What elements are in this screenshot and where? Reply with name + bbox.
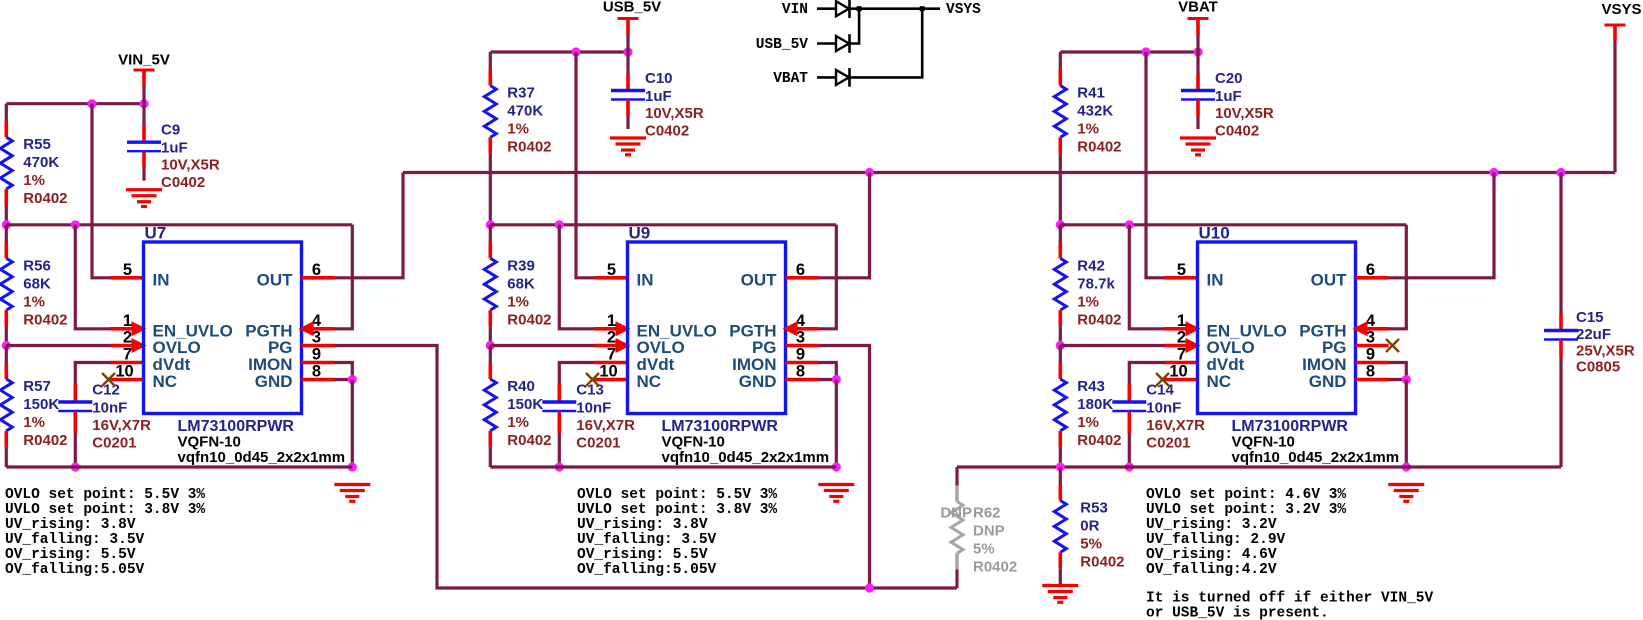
svg-text:5%: 5% <box>973 541 995 558</box>
wire D3 out <box>850 9 923 78</box>
svg-text:VQFN-10: VQFN-10 <box>1232 434 1295 451</box>
svg-text:470K: 470K <box>507 103 543 120</box>
wire R40 to rail <box>489 447 492 467</box>
wire R42 to node <box>1059 326 1062 345</box>
svg-text:1%: 1% <box>507 121 529 138</box>
pin number 2 U7 <box>123 329 132 347</box>
wire R57 to rail <box>5 447 8 467</box>
svg-text:NC: NC <box>637 372 662 391</box>
svg-text:1%: 1% <box>1077 121 1099 138</box>
ground under C9 <box>126 190 162 207</box>
svg-text:IN: IN <box>637 270 654 289</box>
svg-text:R42: R42 <box>1077 257 1105 274</box>
svg-text:GND: GND <box>1309 372 1347 391</box>
svg-text:432K: 432K <box>1077 103 1113 120</box>
node U7 EN riser junction <box>71 220 80 229</box>
label U7 footprint <box>178 449 346 466</box>
wire U9 IN feed <box>576 52 595 278</box>
node U10 GND junction <box>1402 375 1411 384</box>
node C13 on gnd rail <box>555 462 564 471</box>
label U9 refdes <box>629 224 651 243</box>
pin number 7 U9 <box>607 346 616 364</box>
pin number 9 U7 <box>312 346 321 364</box>
wire VSYS bus <box>403 171 1615 174</box>
diode D3 (VBAT) <box>836 68 850 87</box>
ground U10 <box>1388 485 1424 502</box>
wire U10 IN feed <box>1146 52 1165 278</box>
pin 2 U10 OVLO stub <box>1165 338 1201 353</box>
wire U7 gnd rail <box>6 465 352 468</box>
pin 5 U10 IN stub <box>1165 276 1198 280</box>
svg-text:OV_rising: 5.5V: OV_rising: 5.5V <box>577 547 708 563</box>
svg-text:C0805: C0805 <box>1576 359 1620 376</box>
svg-text:C10: C10 <box>645 70 673 87</box>
svg-text:10: 10 <box>1169 363 1187 381</box>
wire U7 UVLO rail <box>6 223 352 226</box>
wire U9 IMON tie <box>819 363 837 380</box>
wire U9 PG riser <box>819 346 870 589</box>
pin names U7 <box>153 270 294 391</box>
node D3 join <box>920 6 925 11</box>
op-amp U9 body <box>628 242 786 414</box>
svg-text:1%: 1% <box>23 414 45 431</box>
wire U7 PG net <box>335 346 958 589</box>
svg-text:VQFN-10: VQFN-10 <box>662 434 725 451</box>
svg-text:UVLO set point: 3.8V 3%: UVLO set point: 3.8V 3% <box>5 502 205 518</box>
pin number 3 U9 <box>796 329 805 347</box>
pin 6 U7 OUT stub <box>302 276 335 280</box>
wire USB_5V to rail <box>626 35 629 53</box>
svg-text:VQFN-10: VQFN-10 <box>178 434 241 451</box>
wire R62 bottom lead <box>955 570 958 589</box>
svg-text:R56: R56 <box>23 257 51 274</box>
label U7 refdes <box>145 224 167 243</box>
svg-text:1%: 1% <box>1077 414 1099 431</box>
wire VIN to diode D1 <box>817 7 836 10</box>
label U10 package <box>1232 434 1295 451</box>
node C15 on bus <box>1556 168 1565 177</box>
pin number 8 U10 <box>1366 363 1375 381</box>
svg-text:GND: GND <box>739 372 777 391</box>
node U10 EN riser junction <box>1125 220 1134 229</box>
svg-text:VSYS: VSYS <box>946 2 981 18</box>
pin 5 U9 IN stub <box>595 276 628 280</box>
wire U10 OVLO feed <box>1060 344 1164 347</box>
node U7 GND junction <box>348 375 357 384</box>
svg-text:R43: R43 <box>1077 378 1105 395</box>
svg-text:UV_rising: 3.2V: UV_rising: 3.2V <box>1146 517 1277 533</box>
power flag USB_5V <box>603 0 661 35</box>
svg-text:R0402: R0402 <box>1080 554 1124 571</box>
power flag VSYS <box>1601 1 1641 41</box>
note U7 OVLO/UVLO set points <box>5 487 205 578</box>
svg-text:2: 2 <box>607 329 616 347</box>
svg-text:5: 5 <box>123 261 132 279</box>
node U10 gnd rail junction <box>1402 462 1411 471</box>
svg-text:NC: NC <box>1207 372 1232 391</box>
svg-text:OVLO set point: 5.5V 3%: OVLO set point: 5.5V 3% <box>577 487 777 503</box>
resistor R55 <box>0 104 67 208</box>
svg-text:5%: 5% <box>1080 536 1102 553</box>
wire U10 PGTH feed <box>1389 225 1407 329</box>
svg-text:U7: U7 <box>145 224 167 243</box>
svg-text:R0402: R0402 <box>23 432 67 449</box>
svg-text:OVLO set point: 4.6V 3%: OVLO set point: 4.6V 3% <box>1146 487 1346 503</box>
capacitor C10 <box>611 52 704 140</box>
pin number 6 U9 <box>796 261 805 279</box>
svg-text:1: 1 <box>123 312 132 330</box>
pin 1 U7 EN_UVLO stub <box>111 321 147 336</box>
svg-text:150K: 150K <box>507 396 543 413</box>
svg-text:1: 1 <box>1177 312 1186 330</box>
pin 2 U9 OVLO stub <box>595 338 631 353</box>
svg-text:R0402: R0402 <box>23 190 67 207</box>
svg-text:1: 1 <box>607 312 616 330</box>
node U9 IN-feed junction <box>571 47 580 56</box>
label U9 footprint <box>662 449 830 466</box>
svg-text:UV_falling: 2.9V: UV_falling: 2.9V <box>1146 532 1286 548</box>
pin 7 U7 dVdt stub <box>111 361 144 365</box>
svg-text:C0402: C0402 <box>1215 123 1259 140</box>
svg-text:R0402: R0402 <box>1077 432 1121 449</box>
resistor R43 <box>1054 346 1121 450</box>
pin 2 U7 OVLO stub <box>111 338 147 353</box>
pin number 8 U9 <box>796 363 805 381</box>
svg-text:16V,X7R: 16V,X7R <box>1146 417 1205 434</box>
wire U7 IN feed <box>92 104 111 278</box>
svg-text:10nF: 10nF <box>1146 400 1181 417</box>
svg-text:R0402: R0402 <box>1077 139 1121 156</box>
note U9 OVLO/UVLO set points <box>577 487 777 578</box>
wire U9 dVdt feed <box>559 363 594 385</box>
pin 6 U10 OUT stub <box>1356 276 1389 280</box>
node U10 IN-feed junction <box>1141 47 1150 56</box>
label net VBAT <box>773 71 808 87</box>
svg-text:VIN_5V: VIN_5V <box>118 52 170 69</box>
node U10 UVLO tap <box>1056 220 1065 229</box>
pin 10 U10 NC stub <box>1156 373 1198 386</box>
node U9 OVLO tap <box>486 341 495 350</box>
pin names U10 <box>1207 270 1348 391</box>
wire U9 gnd riser <box>835 380 838 468</box>
resistor R53 <box>1054 467 1124 571</box>
pin names U9 <box>637 270 778 391</box>
diode D1 (VIN) <box>836 0 850 18</box>
wire D1 out to VSYS <box>850 7 941 10</box>
svg-text:180K: 180K <box>1077 396 1113 413</box>
ground under R53 <box>1042 586 1078 603</box>
svg-text:R0402: R0402 <box>23 311 67 328</box>
wire VSYS flag to bus <box>1613 41 1616 173</box>
ground under C10 <box>610 138 646 155</box>
pin number 3 U10 <box>1366 329 1375 347</box>
wire U10 gnd rail <box>1060 465 1561 468</box>
capacitor C9 <box>127 104 220 192</box>
label net VSYS (diode out) <box>946 2 981 18</box>
svg-text:vqfn10_0d45_2x2x1mm: vqfn10_0d45_2x2x1mm <box>178 449 346 466</box>
svg-text:7: 7 <box>1177 346 1186 364</box>
wire R41 to node <box>1059 153 1062 225</box>
resistor R56 <box>0 225 67 328</box>
node D1/D2 join <box>857 6 862 11</box>
pin 4 U9 PGTH stub <box>783 321 819 336</box>
node U7 UVLO tap <box>2 220 11 229</box>
svg-text:2: 2 <box>123 329 132 347</box>
svg-text:USB_5V: USB_5V <box>603 0 661 16</box>
pin number 2 U10 <box>1177 329 1186 347</box>
node U9 gnd rail junction <box>832 462 841 471</box>
wire R39 to node <box>489 326 492 345</box>
resistor R42 <box>1054 225 1121 328</box>
svg-text:C13: C13 <box>576 382 604 399</box>
node U9 EN riser junction <box>555 220 564 229</box>
svg-text:IN: IN <box>1207 270 1224 289</box>
svg-text:R0402: R0402 <box>507 432 551 449</box>
op-amp U7 body <box>144 242 302 414</box>
label net USB_5V <box>756 37 809 53</box>
svg-text:10nF: 10nF <box>576 400 611 417</box>
ground U7 <box>334 485 370 502</box>
svg-text:10V,X5R: 10V,X5R <box>161 157 220 174</box>
svg-text:5: 5 <box>1177 261 1186 279</box>
pin number 4 U10 <box>1366 312 1376 330</box>
pin number 7 U7 <box>123 346 132 364</box>
svg-text:USB_5V: USB_5V <box>756 37 809 53</box>
pin 4 U7 PGTH stub <box>299 321 335 336</box>
pin number 9 U10 <box>1366 346 1375 364</box>
svg-text:5: 5 <box>607 261 616 279</box>
pin 3 U9 PG stub <box>786 344 819 348</box>
pin 9 U10 IMON stub <box>1356 361 1389 365</box>
capacitor C13 <box>542 382 635 468</box>
svg-text:C12: C12 <box>92 382 120 399</box>
wire R43 to rail <box>1059 447 1062 467</box>
node U7 OVLO tap <box>2 341 11 350</box>
svg-text:68K: 68K <box>507 275 535 292</box>
svg-text:LM73100RPWR: LM73100RPWR <box>1232 418 1349 435</box>
wire U7 dVdt feed <box>75 363 110 385</box>
pin 1 U10 EN_UVLO stub <box>1165 321 1201 336</box>
no-connect U10 PG <box>1386 339 1399 352</box>
svg-text:It is turned off if either VIN: It is turned off if either VIN_5V <box>1146 591 1433 607</box>
svg-text:or USB_5V is present.: or USB_5V is present. <box>1146 606 1329 620</box>
svg-text:VIN: VIN <box>782 2 808 18</box>
svg-text:1%: 1% <box>23 293 45 310</box>
label U9 part number <box>662 418 779 435</box>
svg-text:R57: R57 <box>23 378 51 395</box>
svg-text:OV_rising: 5.5V: OV_rising: 5.5V <box>5 547 136 563</box>
svg-text:1%: 1% <box>507 414 529 431</box>
pin 8 U10 GND stub <box>1356 378 1389 382</box>
capacitor C20 <box>1181 52 1274 140</box>
ground under C20 <box>1180 138 1216 155</box>
wire USB_5V to diode D2 <box>817 42 836 45</box>
label net VIN <box>782 2 808 18</box>
svg-text:25V,X5R: 25V,X5R <box>1576 343 1635 360</box>
note U10 OVLO/UVLO set points <box>1146 487 1346 578</box>
svg-text:R62: R62 <box>973 505 1001 522</box>
wire U10 gnd riser <box>1405 380 1408 468</box>
capacitor C12 <box>58 382 151 468</box>
op-amp U10 body <box>1198 242 1356 414</box>
svg-text:78.7k: 78.7k <box>1077 275 1115 292</box>
svg-text:vqfn10_0d45_2x2x1mm: vqfn10_0d45_2x2x1mm <box>662 449 830 466</box>
node U7 power junction <box>139 99 148 108</box>
svg-text:UV_falling: 3.5V: UV_falling: 3.5V <box>5 532 145 548</box>
svg-text:1%: 1% <box>507 293 529 310</box>
wire U9 UVLO rail <box>490 223 836 226</box>
pin number 4 U9 <box>796 312 806 330</box>
svg-text:OUT: OUT <box>741 270 778 289</box>
resistor R37 <box>484 52 551 156</box>
pin number 4 U7 <box>312 312 322 330</box>
wire U7 OUT to VSYS bus <box>335 173 404 278</box>
label U9 package <box>662 434 725 451</box>
svg-text:470K: 470K <box>23 154 59 171</box>
svg-text:OV_falling:5.05V: OV_falling:5.05V <box>577 562 717 578</box>
pin 8 U7 GND stub <box>302 378 335 382</box>
svg-text:R0402: R0402 <box>973 559 1017 576</box>
node U10 power junction <box>1193 47 1202 56</box>
wire R37 to node <box>489 153 492 225</box>
pin number 5 U9 <box>607 261 616 279</box>
pin 10 U7 NC stub <box>102 373 144 386</box>
svg-text:R0402: R0402 <box>507 139 551 156</box>
wire R62 top lead <box>955 467 958 486</box>
wire U7 IMON tie <box>335 363 353 380</box>
svg-text:1%: 1% <box>1077 293 1099 310</box>
wire U9 OVLO feed <box>490 344 594 347</box>
svg-text:R55: R55 <box>23 136 51 153</box>
pin number 10 U10 <box>1169 363 1187 381</box>
svg-text:OV_falling:5.05V: OV_falling:5.05V <box>5 562 145 578</box>
wire U10 dVdt feed <box>1129 363 1164 385</box>
capacitor C14 <box>1112 382 1205 468</box>
node PG join <box>865 583 874 592</box>
svg-text:68K: 68K <box>23 275 51 292</box>
svg-text:NC: NC <box>153 372 178 391</box>
svg-text:UV_falling: 3.5V: UV_falling: 3.5V <box>577 532 717 548</box>
note U10 condition <box>1146 591 1433 620</box>
pin number 5 U7 <box>123 261 132 279</box>
node U7 gnd rail junction <box>348 462 357 471</box>
label U10 part number <box>1232 418 1349 435</box>
svg-text:C15: C15 <box>1576 309 1604 326</box>
svg-text:10nF: 10nF <box>92 400 127 417</box>
wire U7 EN_UVLO feed <box>75 225 110 329</box>
svg-text:1uF: 1uF <box>645 88 672 105</box>
svg-text:vqfn10_0d45_2x2x1mm: vqfn10_0d45_2x2x1mm <box>1232 449 1400 466</box>
svg-text:IN: IN <box>153 270 170 289</box>
svg-text:UV_rising: 3.8V: UV_rising: 3.8V <box>5 517 136 533</box>
svg-text:LM73100RPWR: LM73100RPWR <box>178 418 295 435</box>
svg-text:7: 7 <box>123 346 132 364</box>
wire U10 EN_UVLO feed <box>1129 225 1164 329</box>
wire U7 gnd riser <box>351 380 354 468</box>
svg-text:R40: R40 <box>507 378 535 395</box>
svg-text:UVLO set point: 3.8V 3%: UVLO set point: 3.8V 3% <box>577 502 777 518</box>
svg-text:U9: U9 <box>629 224 651 243</box>
svg-text:C9: C9 <box>161 122 180 139</box>
wire U10 UVLO rail <box>1060 223 1406 226</box>
pin 8 U9 GND stub <box>786 378 819 382</box>
node C14 on gnd rail <box>1125 462 1134 471</box>
wire U10 top rail <box>1060 50 1198 53</box>
svg-text:VSYS: VSYS <box>1601 1 1641 18</box>
svg-text:C0201: C0201 <box>1146 435 1190 452</box>
pin 9 U7 IMON stub <box>302 361 335 365</box>
svg-text:10: 10 <box>599 363 617 381</box>
svg-text:C0201: C0201 <box>92 435 136 452</box>
pin 5 U7 IN stub <box>111 276 144 280</box>
resistor R41 <box>1054 52 1121 156</box>
svg-text:C14: C14 <box>1146 382 1174 399</box>
svg-text:VBAT: VBAT <box>1178 0 1218 16</box>
wire R55 to node <box>5 205 8 225</box>
svg-text:10V,X5R: 10V,X5R <box>645 105 704 122</box>
resistor R57 <box>0 346 67 450</box>
power flag VBAT <box>1178 0 1218 35</box>
pin 1 U9 EN_UVLO stub <box>595 321 631 336</box>
svg-text:0R: 0R <box>1080 518 1099 535</box>
svg-text:7: 7 <box>607 346 616 364</box>
node U10 OVLO tap <box>1056 341 1065 350</box>
wire U9 gnd rail <box>490 465 836 468</box>
svg-text:1uF: 1uF <box>161 140 188 157</box>
ground U9 <box>818 485 854 502</box>
node U7 IN-feed junction <box>87 99 96 108</box>
svg-text:R41: R41 <box>1077 85 1105 102</box>
pin number 9 U9 <box>796 346 805 364</box>
pin 10 U9 NC stub <box>586 373 628 386</box>
wire R53 to ground <box>1059 568 1062 585</box>
pin number 1 U10 <box>1177 312 1186 330</box>
pin 7 U9 dVdt stub <box>595 361 628 365</box>
node U9 UVLO tap <box>486 220 495 229</box>
pin 6 U9 OUT stub <box>786 276 819 280</box>
svg-text:OV_rising: 4.6V: OV_rising: 4.6V <box>1146 547 1277 563</box>
wire U10 IMON tie <box>1389 363 1407 380</box>
svg-text:16V,X7R: 16V,X7R <box>92 417 151 434</box>
node U10 OUT on bus <box>1489 168 1498 177</box>
svg-text:C0402: C0402 <box>161 174 205 191</box>
pin number 6 U7 <box>312 261 321 279</box>
pin number 7 U10 <box>1177 346 1186 364</box>
label U10 footprint <box>1232 449 1400 466</box>
wire VIN_5V to rail <box>142 86 145 104</box>
svg-text:R0402: R0402 <box>1077 311 1121 328</box>
svg-text:UVLO set point: 3.2V 3%: UVLO set point: 3.2V 3% <box>1146 502 1346 518</box>
svg-text:R53: R53 <box>1080 500 1108 517</box>
svg-text:DNP: DNP <box>940 505 972 522</box>
wire U9 OUT riser <box>819 173 870 278</box>
wire VBAT to rail <box>1196 35 1199 53</box>
svg-text:C20: C20 <box>1215 70 1243 87</box>
pin 7 U10 dVdt stub <box>1165 361 1198 365</box>
node C12 on gnd rail <box>71 462 80 471</box>
svg-text:2: 2 <box>1177 329 1186 347</box>
svg-text:22uF: 22uF <box>1576 326 1611 343</box>
svg-text:LM73100RPWR: LM73100RPWR <box>662 418 779 435</box>
wire R56 to node <box>5 326 8 345</box>
wire U10 GND link <box>1389 378 1407 381</box>
svg-text:1uF: 1uF <box>1215 88 1242 105</box>
wire U7 OVLO feed <box>6 344 110 347</box>
svg-text:VBAT: VBAT <box>773 71 808 87</box>
svg-text:U10: U10 <box>1199 224 1230 243</box>
pin number 2 U9 <box>607 329 616 347</box>
pin number 1 U7 <box>123 312 132 330</box>
